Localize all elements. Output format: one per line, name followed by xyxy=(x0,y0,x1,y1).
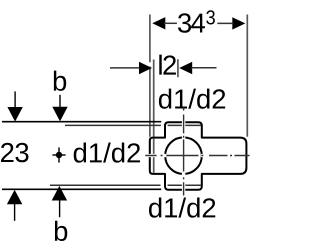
arrow small top-left xyxy=(7,91,22,121)
extension line right (34-3 dim) xyxy=(246,15,248,137)
label b bottom xyxy=(55,221,67,241)
pipe wall line top outer xyxy=(2,121,161,123)
label d1/d2 top xyxy=(159,89,225,109)
dimension 34-3 arrow left xyxy=(152,17,177,29)
label d1/d2 bottom xyxy=(149,197,215,217)
pipe wall line bottom inner xyxy=(50,184,201,186)
fitting body (union silhouette) xyxy=(150,122,247,189)
pipe wall line top inner xyxy=(65,124,201,126)
label d1/d2 mid-left xyxy=(74,142,140,162)
centerline vertical xyxy=(183,108,185,196)
pipe wall line bottom outer xyxy=(2,188,161,190)
pipe end line inside socket xyxy=(153,139,155,173)
pipe wall bottom inner continuation over branch xyxy=(168,184,202,186)
label b top xyxy=(54,71,66,91)
dimension text 34 xyxy=(178,13,205,32)
arrow b top xyxy=(52,95,67,122)
center mark symbol xyxy=(52,147,65,162)
extension line center (l2 dim right) xyxy=(177,59,179,77)
dimension l2 arrow right xyxy=(179,62,216,74)
white breaks at centerline crossings xyxy=(149,121,204,191)
branch circle xyxy=(165,137,202,174)
dimension l2 arrow left xyxy=(110,62,152,74)
label 23 xyxy=(1,143,29,162)
arrow small bottom-left xyxy=(7,190,22,221)
centerline horizontal xyxy=(145,155,249,157)
pipe wall top inner continuation over branch xyxy=(168,124,201,126)
dimension superscript 3 xyxy=(206,10,215,24)
dimension text l2 xyxy=(159,55,176,75)
dimension 34-3 arrow right xyxy=(217,17,245,29)
arrow b bottom xyxy=(52,186,67,217)
extension line left outer (34-3 dim) xyxy=(149,15,151,137)
extension line left inner (l2 dim) xyxy=(153,60,155,174)
